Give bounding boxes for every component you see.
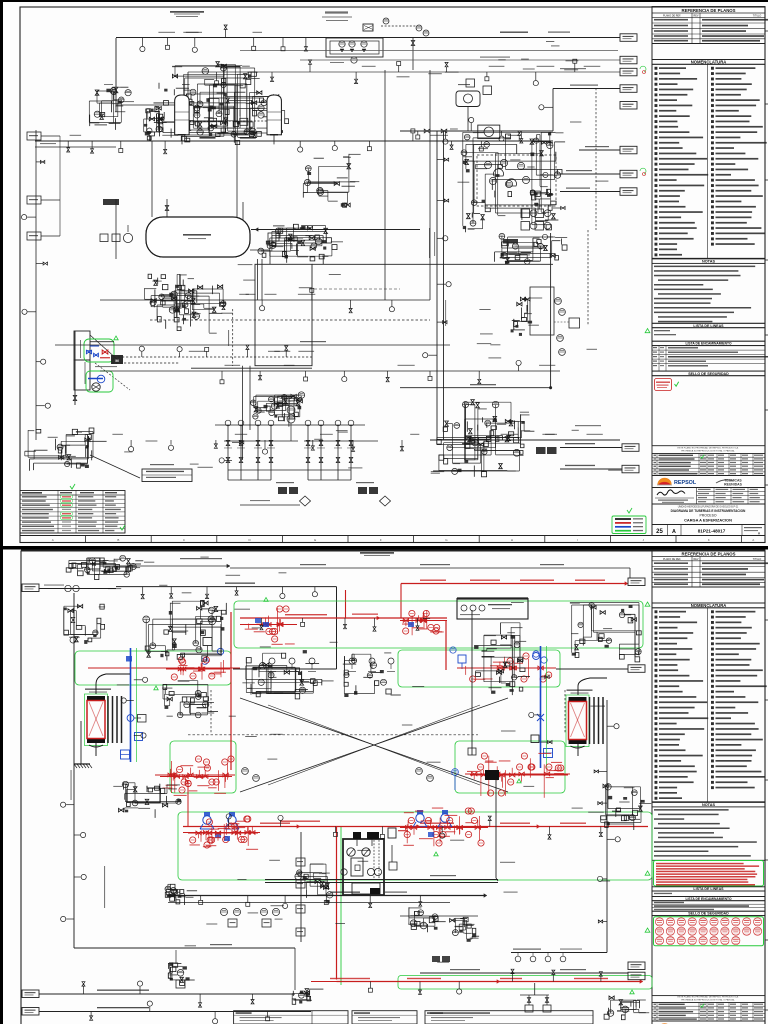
svg-text:A: A	[52, 538, 54, 542]
svg-text:B: B	[117, 538, 119, 542]
svg-text:H: H	[511, 538, 513, 542]
svg-text:REV: REV	[694, 558, 699, 561]
svg-text:A: A	[672, 529, 676, 535]
svg-text:PLANO DE REF.: PLANO DE REF.	[663, 14, 681, 17]
svg-text:LISTA DE LINEAS: LISTA DE LINEAS	[693, 324, 724, 328]
svg-text:NOTAS: NOTAS	[702, 803, 715, 807]
svg-text:REFERENCIA DE PLANOS: REFERENCIA DE PLANOS	[681, 551, 735, 556]
svg-text:PROHIBIDA SU REPRODUCCION TOTA: PROHIBIDA SU REPRODUCCION TOTAL O PARCIA…	[681, 999, 735, 1002]
svg-text:M: M	[92, 562, 96, 568]
svg-text:SELLO DE SEGURIDAD: SELLO DE SEGURIDAD	[688, 372, 729, 376]
svg-text:F: F	[380, 538, 382, 542]
svg-text:REPSOL: REPSOL	[674, 480, 697, 486]
svg-text:NOMENCLATURA: NOMENCLATURA	[691, 603, 727, 608]
svg-text:ESTE PLANO ES PROPIEDAD DE REP: ESTE PLANO ES PROPIEDAD DE REPSOL PETROL…	[677, 447, 738, 450]
svg-text:ESTE PLANO ES PROPIEDAD DE REP: ESTE PLANO ES PROPIEDAD DE REPSOL PETROL…	[677, 996, 738, 999]
svg-text:DIAGRAMA DE TUBERIAS E INSTRUM: DIAGRAMA DE TUBERIAS E INSTRUMENTACION	[671, 509, 746, 513]
svg-text:E: E	[314, 538, 316, 542]
svg-text:TITULO: TITULO	[753, 558, 762, 561]
svg-text:K: K	[708, 538, 710, 542]
svg-text:PLANO DE REF.: PLANO DE REF.	[663, 558, 681, 561]
svg-text:REV: REV	[694, 14, 699, 17]
svg-text:REFERENCIA DE PLANOS: REFERENCIA DE PLANOS	[681, 8, 735, 13]
svg-text:NOMENCLATURA: NOMENCLATURA	[691, 60, 727, 65]
svg-text:TITULO: TITULO	[753, 14, 762, 17]
svg-text:SELLO DE SEGURIDAD: SELLO DE SEGURIDAD	[688, 912, 729, 916]
svg-text:LISTA DE ENCAMINAMIENTO: LISTA DE ENCAMINAMIENTO	[685, 342, 732, 346]
svg-text:PROHIBIDA SU REPRODUCCION TOTA: PROHIBIDA SU REPRODUCCION TOTAL O PARCIA…	[681, 450, 735, 453]
svg-text:REUNIDAS: REUNIDAS	[724, 483, 742, 487]
svg-text:I: I	[577, 538, 578, 542]
svg-text:81P21-48017: 81P21-48017	[698, 529, 726, 534]
svg-text:NOTAS: NOTAS	[702, 260, 715, 264]
svg-text:A: A	[752, 538, 754, 542]
svg-text:25: 25	[656, 529, 663, 535]
svg-text:CARGA A ESFERIZACION: CARGA A ESFERIZACION	[684, 518, 732, 523]
